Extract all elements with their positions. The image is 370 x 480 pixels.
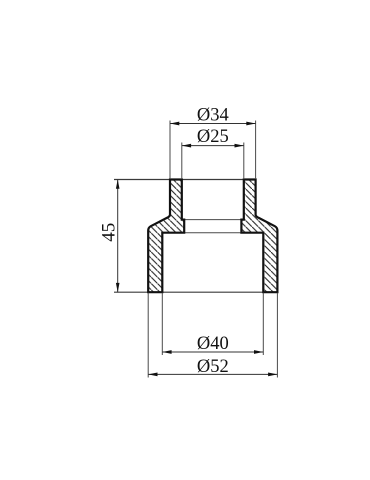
svg-text:Ø25: Ø25 (197, 127, 229, 147)
arrowhead Ø25 right (235, 144, 244, 148)
node internal shoulder edge line across bore (162, 232, 263, 234)
arrowhead Ø34 right (246, 122, 255, 126)
svg-text:Ø40: Ø40 (197, 334, 229, 354)
extension line Ø34 right (255, 121, 257, 180)
extension line Ø25 left (181, 143, 183, 180)
wire top face line with extension to 45-dim (114, 179, 256, 181)
arrowhead Ø52 left (148, 373, 157, 377)
arrowhead Ø34 left (170, 122, 179, 126)
extension line Ø52 left (147, 293, 149, 378)
svg-text:45: 45 (99, 223, 120, 242)
node internal ridge edge line across bore (182, 219, 244, 221)
left wall section of coupling (hatched) (148, 180, 184, 293)
arrowhead Ø52 right (268, 373, 277, 377)
extension line Ø52 right (276, 293, 278, 378)
dimension line 45 (vertical) (117, 180, 119, 293)
dimension line Ø40 (162, 351, 263, 353)
wire bottom face line with extension to 45-dim (114, 291, 277, 293)
extension line Ø40 right (262, 293, 264, 355)
arrowhead Ø40 right (254, 350, 263, 354)
arrowhead Ø25 left (182, 144, 191, 148)
dimension line Ø52 (148, 373, 277, 375)
arrowhead 45 top (116, 180, 120, 189)
extension line Ø25 right (243, 143, 245, 180)
extension line Ø40 left (161, 293, 163, 355)
arrowhead 45 bottom (116, 283, 120, 292)
arrowhead Ø40 left (162, 350, 171, 354)
svg-text:Ø34: Ø34 (197, 106, 229, 126)
dimension line Ø25 (182, 145, 244, 147)
right wall section of coupling (hatched) (241, 180, 277, 293)
svg-text:Ø52: Ø52 (197, 357, 229, 377)
extension line Ø34 left (169, 121, 171, 180)
dimension line Ø34 (170, 123, 256, 125)
